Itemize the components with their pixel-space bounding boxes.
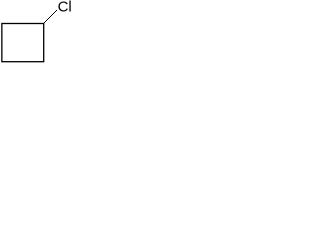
svg-text:Cl: Cl	[58, 0, 72, 16]
